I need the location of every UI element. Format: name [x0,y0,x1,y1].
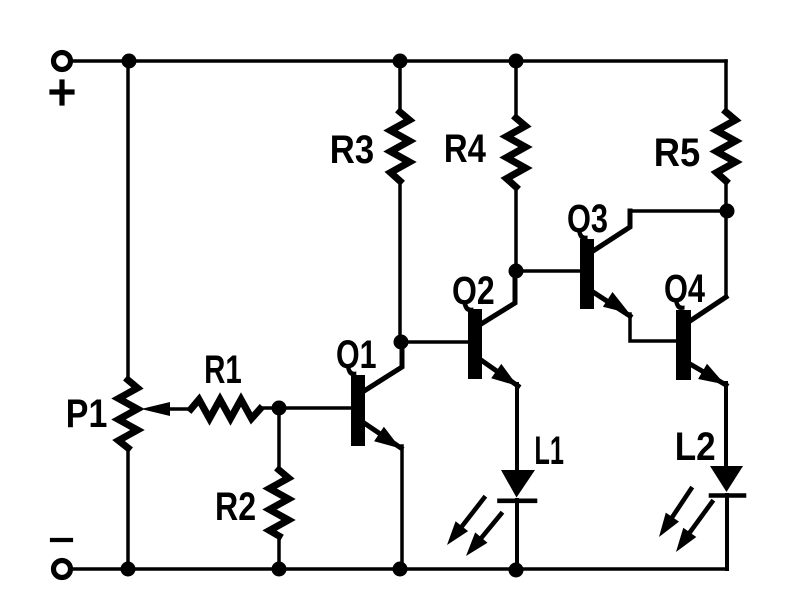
L2 cathode bar [711,493,744,498]
resistor R2 [270,470,289,536]
wire bottom rail [73,567,727,571]
resistor R3 [391,112,410,181]
wire Q2 emitter to L1 [515,384,519,470]
node bottom left rail junction [121,562,136,577]
Q3 emitter wire [593,292,630,316]
Q2 collector wire [481,272,515,324]
svg-text:Q1: Q1 [336,332,377,377]
svg-text:Q4: Q4 [664,266,705,311]
svg-text:L1: L1 [534,429,564,473]
terminal minus [54,561,71,578]
Q1 emitter wire [364,423,401,448]
svg-text:R5: R5 [654,130,701,175]
svg-text:R1: R1 [204,348,242,392]
wire Q3 emitter to Q4 base [630,314,676,341]
wire R5 to Q4 collector [724,181,728,297]
svg-text:L2: L2 [675,424,716,469]
svg-text:R4: R4 [444,126,487,171]
transistor Q2 [468,309,482,379]
resistor R1 [191,400,260,419]
svg-text:R2: R2 [215,484,256,529]
minus sign [52,538,71,542]
resistor R4 [507,118,526,187]
node R4 top junction [509,54,524,69]
Q4 emitter wire [690,364,726,385]
potentiometer P1 [119,380,138,448]
node L1 bottom junction [509,563,524,578]
wire wiper to R1 [168,407,191,411]
node R2 bottom junction [272,562,287,577]
Q4 emitter arrow [698,364,725,385]
node Q1 emitter bottom junction [393,562,408,577]
wire R1 to Q1 base [260,406,351,410]
LED L1 [501,470,535,498]
L1 cathode bar [500,498,536,503]
wire top rail [73,59,726,63]
transistor Q3 [580,239,594,309]
L1 light arrow 1 [447,498,484,545]
wire Q3 base [516,269,580,273]
wire left rail upper [126,61,130,381]
node top-left junction [122,54,137,69]
Q3 emitter arrow [603,292,630,314]
wire L2 to bottom rail [725,495,729,569]
transistor Q1 [351,375,365,446]
wire Q2 base [401,340,468,344]
node Q2 collector junction [509,264,524,279]
wire R4 to node [514,187,518,271]
svg-text:Q2: Q2 [452,268,495,313]
Q3 collector wire [593,211,630,251]
node R5 bottom junction [720,204,735,219]
wire Q1 emitter down [400,446,404,569]
wire R4 top lead [514,61,518,119]
Q1 collector wire [364,344,402,391]
wire R3 top lead [398,61,402,113]
Q2 emitter wire [481,360,518,386]
LED L2 [710,466,743,492]
transistor Q4 [676,310,691,380]
Q4 collector wire [690,297,726,321]
L1 light arrow 2 [466,514,501,556]
node R3 top junction [393,54,408,69]
wire L1 to bottom rail [515,500,519,569]
resistor R5 [717,112,736,181]
wire R3 to node [398,181,402,342]
wire Q3 collector to R5 node [630,209,727,213]
wire R5 top lead [724,61,728,113]
wire Q4 emitter to L2 [724,383,728,466]
node Q1 collector junction [394,335,409,350]
Q1 emitter arrow [374,427,400,449]
wire R2 top lead [277,409,281,470]
P1 wiper arrow [141,402,170,416]
L2 light arrow 1 [659,489,691,537]
terminal plus [54,53,71,70]
wire R2 bottom lead [277,536,281,569]
wire left rail lower [126,448,130,569]
plus sign [52,82,72,103]
svg-text:Q3: Q3 [567,196,608,241]
Q2 emitter arrow [491,364,517,386]
L2 light arrow 2 [676,502,712,552]
node R1 R2 Q1 base junction [272,401,287,416]
svg-text:P1: P1 [66,390,108,435]
svg-text:R3: R3 [330,127,374,172]
